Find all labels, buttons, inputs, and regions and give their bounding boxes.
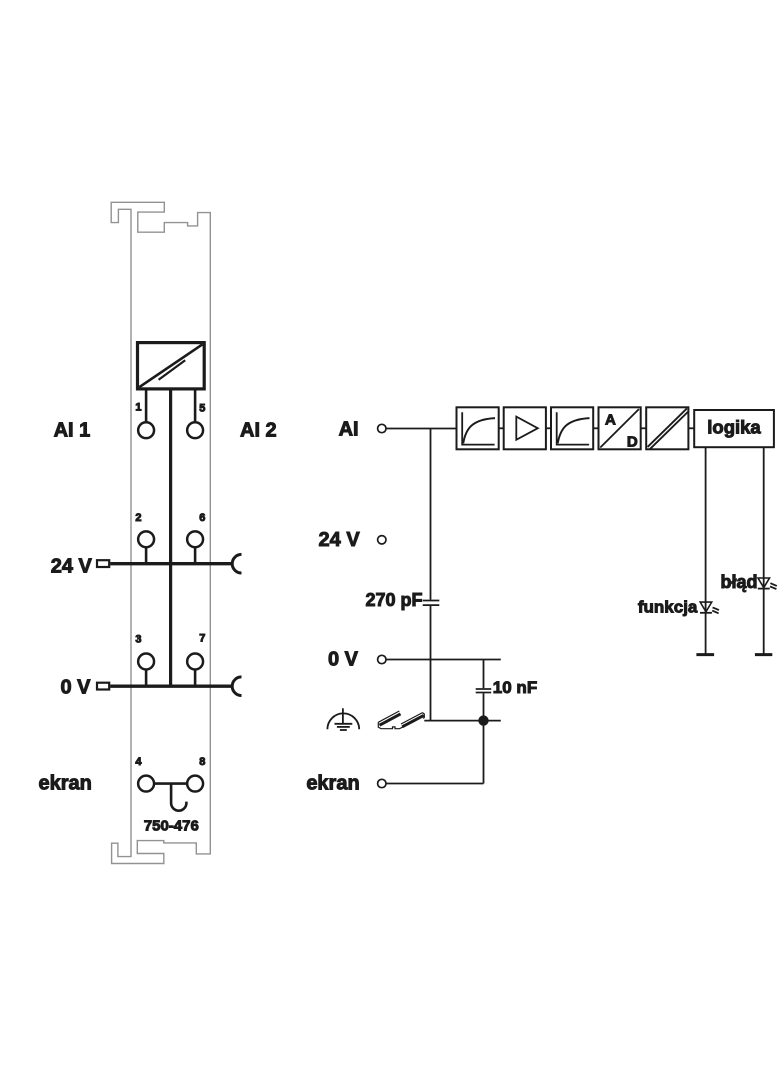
wire block3-block4 — [593, 427, 598, 429]
wire ekran bus — [386, 783, 483, 785]
stub terminal6 to 24V rail — [194, 547, 197, 564]
isolator box U1 — [138, 343, 205, 389]
filter3 axis — [557, 412, 589, 444]
LED blad cathode bar — [758, 588, 770, 590]
0V rail line — [110, 685, 232, 688]
wire block2-block3 — [546, 427, 551, 429]
node 24V terminal — [378, 536, 386, 544]
LED funkcja arrow a — [713, 607, 719, 610]
wire isolator center to 0V rail — [169, 389, 172, 686]
svg-text:ekran: ekran — [306, 773, 359, 795]
terminal 8 — [187, 776, 203, 792]
24V jumper contact hook — [232, 554, 241, 573]
svg-text:8: 8 — [199, 756, 205, 768]
ground dash 1 — [335, 723, 353, 725]
filter3 curve — [558, 418, 590, 443]
isolation block 5 — [646, 407, 688, 449]
wire AI branch down — [430, 429, 432, 600]
wire terminal4-terminal8 — [154, 782, 187, 785]
node ekran terminal — [378, 779, 386, 787]
24V rail line — [110, 562, 232, 565]
24V plug square — [97, 560, 109, 567]
filter1 axis — [462, 412, 494, 444]
stub terminal2 to 24V rail — [145, 547, 148, 564]
amplifier triangle — [516, 417, 538, 440]
wire 270pF to shield bus — [430, 606, 432, 721]
ground dash 3 — [340, 729, 347, 731]
funkcja LED ground bar — [696, 653, 714, 656]
svg-text:logika: logika — [707, 417, 761, 438]
isolation diagonal a — [648, 408, 687, 447]
ground stem — [342, 708, 344, 724]
node AI terminal — [378, 424, 386, 432]
svg-text:750-476: 750-476 — [144, 817, 199, 834]
LED funkcja cathode bar — [700, 612, 712, 614]
svg-text:funkcja: funkcja — [638, 597, 698, 616]
svg-text:7: 7 — [199, 633, 205, 645]
wire block5-logika — [688, 427, 694, 429]
wire AI to block chain — [386, 428, 456, 430]
svg-text:błąd: błąd — [720, 572, 757, 592]
capacitor 270pF plate b — [423, 604, 440, 606]
capacitor 270pF plate a — [423, 600, 440, 602]
module outline — [111, 202, 210, 863]
A/D converter block 4 — [599, 407, 641, 449]
isolator diagonal — [139, 344, 202, 387]
isolation diagonal b — [650, 411, 689, 449]
terminal 7 — [187, 654, 203, 670]
svg-text:D: D — [627, 433, 638, 450]
svg-text:10 nF: 10 nF — [493, 678, 537, 697]
blad LED ground bar — [755, 653, 772, 656]
isolator second diagonal — [159, 360, 186, 380]
svg-text:4: 4 — [135, 756, 142, 768]
svg-text:1: 1 — [135, 402, 141, 414]
0V jumper contact hook — [232, 677, 241, 696]
wire 0V to 10nF — [483, 660, 485, 689]
wire 0V bus — [386, 659, 501, 661]
capacitor 10nF plate b — [476, 692, 492, 694]
filter1 curve — [463, 418, 495, 443]
terminal 1 — [138, 422, 154, 438]
terminal 6 — [187, 531, 203, 547]
svg-text:3: 3 — [135, 633, 141, 645]
wire ekran up to junction — [483, 721, 485, 784]
svg-text:ekran: ekran — [39, 773, 92, 795]
svg-text:AI 2: AI 2 — [240, 420, 277, 442]
node 0V terminal — [378, 655, 386, 663]
LED blad triangle — [758, 578, 770, 588]
LED blad arrow b — [770, 586, 776, 589]
junction dot — [478, 715, 488, 725]
LED funkcja arrow b — [712, 611, 718, 614]
shield drain J-hook — [171, 784, 186, 811]
capacitor 10nF plate a — [476, 688, 492, 690]
svg-text:6: 6 — [199, 512, 205, 524]
svg-text:24 V: 24 V — [51, 555, 93, 577]
wire block4-block5 — [641, 427, 647, 429]
shield bus bar — [424, 720, 501, 722]
svg-text:AI 1: AI 1 — [54, 420, 91, 442]
ground dash 2 — [337, 726, 350, 728]
amplifier block 2 — [504, 407, 546, 449]
filter block 3 — [551, 407, 593, 449]
ground symbol arc — [327, 713, 359, 729]
svg-text:0 V: 0 V — [328, 649, 359, 671]
terminal 3 — [138, 654, 154, 670]
terminal 4 — [138, 776, 154, 792]
LED blad arrow a — [770, 583, 776, 586]
DIN rail symbol — [378, 711, 424, 729]
terminal 5 — [187, 422, 203, 438]
0V plug square — [97, 683, 109, 690]
logika box — [694, 410, 774, 447]
wire pin5 from isolator — [194, 389, 197, 421]
A/D diagonal — [600, 409, 639, 447]
svg-text:24 V: 24 V — [319, 529, 361, 551]
filter block 1 — [457, 407, 499, 449]
svg-text:AI: AI — [339, 419, 359, 441]
svg-text:5: 5 — [199, 403, 205, 415]
svg-text:A: A — [605, 411, 616, 428]
svg-text:2: 2 — [135, 512, 141, 524]
svg-text:0 V: 0 V — [60, 676, 91, 698]
wire logika to blad LED — [763, 447, 765, 654]
wire pin1 from isolator — [145, 389, 148, 421]
wire block1-block2 — [499, 427, 504, 429]
stub terminal3 to 0V rail — [145, 669, 148, 686]
wire logika to funkcja LED — [705, 447, 707, 654]
LED funkcja triangle — [700, 602, 712, 612]
terminal 2 — [138, 531, 154, 547]
stub terminal7 to 0V rail — [194, 669, 197, 686]
wire 10nF to shield bus — [483, 693, 485, 720]
svg-text:270 pF: 270 pF — [365, 590, 422, 610]
